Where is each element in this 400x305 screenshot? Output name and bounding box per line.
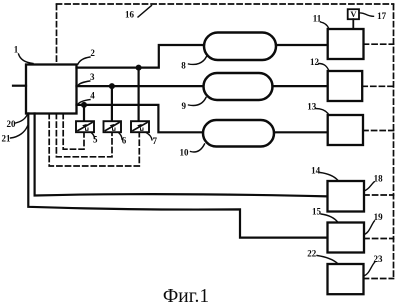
svg-text:21: 21 [2, 134, 12, 144]
junction dot on wire 2 [136, 65, 142, 71]
block 22 [328, 264, 364, 294]
svg-text:8: 8 [181, 60, 186, 70]
wire 3: block 1 to oval 9 [77, 85, 204, 87]
svg-text:22: 22 [307, 248, 317, 258]
wire: oval 10 to block 13 [274, 131, 328, 133]
leader for label 20 [16, 115, 28, 124]
leader for label 8 [189, 57, 207, 65]
svg-text:7: 7 [153, 136, 158, 146]
dashed stub: block 15 to enclosure [364, 238, 394, 240]
leader for label 14 [320, 173, 338, 181]
wire: V box to block 11 [352, 19, 354, 29]
dashed stub: block 12 to enclosure [362, 85, 393, 87]
leader for label 2 [78, 57, 90, 64]
dashed enclosure 16 top edge [57, 3, 394, 5]
leader for label 1 [19, 54, 34, 64]
leader for label 12 [319, 64, 329, 71]
dashed control line: block 1 to attenuator 5 [63, 114, 84, 150]
leader for label 3 [78, 81, 90, 86]
block 14 [328, 181, 365, 212]
svg-text:20: 20 [7, 119, 17, 129]
leader for label 11 [321, 22, 329, 29]
wire 21: block 1 bottom to block 15 [28, 114, 327, 238]
svg-text:17: 17 [377, 11, 387, 21]
wire: oval 8 to block 11 [276, 44, 327, 46]
svg-text:3: 3 [90, 72, 95, 82]
svg-text:V: V [350, 9, 357, 19]
svg-text:15: 15 [312, 206, 322, 216]
leader for label 6 [119, 133, 122, 140]
wire 4: block 1 to oval 10 (with step down) [77, 105, 204, 132]
svg-text:4: 4 [90, 91, 95, 101]
meter V box 17 [348, 9, 359, 19]
wire: junction to attenuator 6 [111, 86, 113, 121]
dashed stub: block 13 to enclosure [363, 130, 394, 132]
attenuator 5 [76, 121, 94, 132]
leader for label 7 [147, 133, 153, 140]
leader for label 15 [321, 214, 338, 222]
leader for label 19 [364, 221, 374, 235]
leader for label 23 [364, 262, 375, 276]
wire: input line into block 1 left side [13, 85, 26, 87]
wire: junction to attenuator 7 [138, 68, 140, 122]
attenuator 6 [104, 121, 122, 132]
junction dot on wire 3 [109, 83, 115, 89]
wire 20: block 1 bottom to block 14 [35, 114, 328, 197]
oval 8 (delay line) [204, 33, 276, 61]
block 13 [328, 115, 363, 145]
junction dot on wire 4 [81, 102, 87, 108]
block 12 [328, 71, 363, 101]
svg-text:12: 12 [310, 57, 320, 67]
svg-text:9: 9 [181, 101, 186, 111]
leader for label 10 [191, 144, 205, 152]
block 15 [328, 223, 365, 253]
dashed stub: block 11 to enclosure [364, 43, 394, 45]
dashed stub: block 22 to enclosure (bottom edge) [364, 278, 394, 280]
dashed stub: block 14 to enclosure [364, 194, 394, 196]
svg-text:16: 16 [125, 10, 135, 20]
oval 9 (delay line) [204, 73, 273, 100]
leader for label 5 [92, 133, 95, 139]
svg-text:Фиг.1: Фиг.1 [163, 286, 209, 305]
dashed enclosure 16 right edge [393, 5, 395, 279]
attenuator 7 [131, 121, 149, 132]
leader for label 16 [138, 6, 152, 18]
dashed control line: block 1 to attenuator 7 [49, 114, 139, 167]
leader for label 9 [189, 98, 207, 106]
svg-text:2: 2 [90, 48, 95, 58]
wire 2: block 1 to oval 8 (with step up) [77, 45, 205, 68]
dashed control line: block 1 to attenuator 6 [56, 114, 112, 157]
wire: oval 9 to block 12 [273, 85, 328, 87]
leader for label 4 [78, 100, 90, 105]
leader for label 22 [317, 256, 338, 264]
block 1 (main unit) [26, 65, 77, 114]
dashed enclosure 16 left edge [56, 5, 58, 65]
block 11 [328, 29, 364, 59]
leader for label 21 [11, 126, 28, 138]
wire: junction to attenuator 5 [83, 105, 85, 121]
svg-text:14: 14 [311, 165, 321, 175]
svg-text:10: 10 [180, 147, 190, 157]
svg-text:6: 6 [122, 135, 127, 145]
leader for label 18 [364, 182, 374, 191]
leader for label 13 [316, 109, 329, 114]
svg-text:13: 13 [307, 102, 317, 112]
svg-text:1: 1 [14, 45, 19, 55]
leader for label 17 [360, 13, 374, 16]
oval 10 (delay line) [203, 120, 274, 147]
svg-text:18: 18 [374, 174, 384, 184]
